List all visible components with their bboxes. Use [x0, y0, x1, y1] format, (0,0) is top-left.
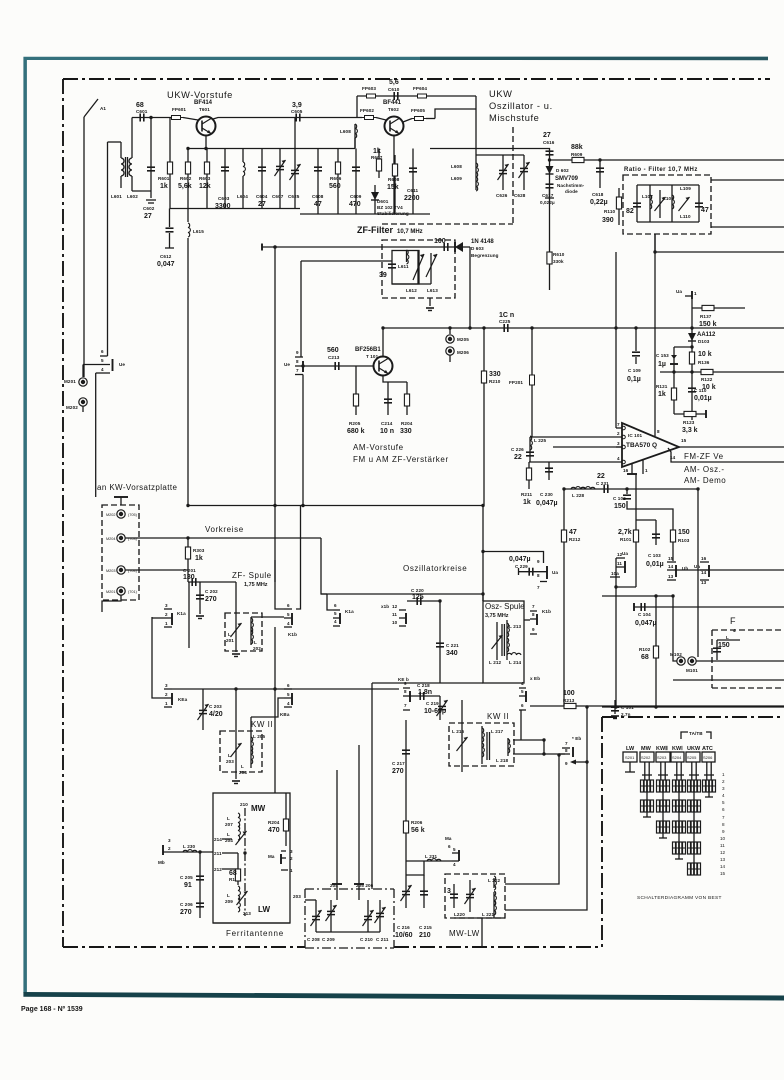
resistor R303 1k	[185, 538, 204, 582]
svg-text:UKW: UKW	[687, 746, 701, 752]
svg-text:S201: S201	[625, 755, 635, 760]
svg-text:M202: M202	[106, 513, 116, 517]
svg-text:R121: R121	[656, 384, 668, 389]
svg-text:91: 91	[184, 882, 192, 889]
svg-text:47: 47	[701, 207, 709, 214]
svg-text:47: 47	[314, 201, 322, 208]
wire Osz box to K1b	[524, 619, 530, 621]
svg-text:L 205: L 205	[253, 734, 266, 739]
svg-text:Ferritantenne: Ferritantenne	[226, 929, 284, 938]
svg-text:C 218: C 218	[417, 683, 430, 688]
wire M101 right	[696, 660, 784, 662]
svg-text:C611: C611	[407, 188, 418, 193]
svg-text:M203: M203	[106, 569, 116, 573]
svg-text:68: 68	[136, 102, 144, 109]
trimmer C626	[496, 155, 509, 198]
svg-text:11: 11	[720, 843, 725, 848]
svg-text:202: 202	[253, 646, 261, 651]
resistor R137 150k	[692, 305, 745, 328]
svg-text:R204: R204	[268, 820, 280, 825]
connector K1a osc pins 6 5 4	[333, 603, 354, 626]
test point FP605	[403, 108, 435, 122]
trimmer L613	[426, 253, 438, 293]
svg-text:R608: R608	[388, 177, 400, 182]
wire left short y596	[602, 595, 673, 597]
svg-text:L608: L608	[340, 129, 351, 134]
svg-text:C609: C609	[350, 194, 362, 199]
svg-text:47: 47	[569, 529, 577, 536]
svg-text:C618: C618	[592, 192, 604, 197]
svg-text:D601: D601	[377, 199, 389, 204]
svg-text:L109: L109	[680, 186, 691, 191]
wire ratio box bottom internal	[637, 221, 699, 223]
svg-text:3: 3	[168, 838, 171, 843]
svg-text:7: 7	[722, 815, 725, 820]
svg-text:Page 168 - Nº 1539: Page 168 - Nº 1539	[21, 1006, 83, 1013]
svg-text:210: 210	[419, 932, 431, 939]
svg-text:0,047µ: 0,047µ	[536, 500, 558, 507]
svg-text:L 217: L 217	[491, 729, 504, 734]
svg-text:Nachstimm-: Nachstimm-	[557, 183, 585, 188]
node M204 KW	[106, 534, 138, 542]
svg-text:6: 6	[334, 603, 337, 608]
svg-text:C 220: C 220	[411, 588, 424, 593]
ZF-Spule dashed box	[225, 613, 262, 651]
wire rail x275 to ferrite	[274, 689, 276, 793]
chain-dot module border left	[62, 79, 64, 947]
resistor R610 330k	[547, 198, 565, 290]
svg-text:C 153: C 153	[656, 353, 669, 358]
svg-text:C 229: C 229	[515, 564, 528, 569]
resistor R606 560	[329, 149, 342, 215]
svg-text:8: 8	[532, 612, 535, 617]
svg-text:56 k: 56 k	[411, 827, 425, 834]
svg-text:6: 6	[101, 349, 104, 354]
svg-text:209: 209	[225, 899, 233, 904]
switch stack LW stub	[625, 762, 635, 772]
wire M201 stub	[102, 595, 121, 612]
svg-text:R601: R601	[158, 176, 170, 181]
svg-text:214: 214	[214, 837, 222, 842]
svg-text:L: L	[726, 635, 729, 640]
wire M box	[673, 596, 677, 661]
svg-text:C610: C610	[388, 87, 400, 92]
svg-text:6: 6	[521, 703, 524, 708]
svg-text:7: 7	[296, 368, 299, 373]
svg-text:330: 330	[400, 428, 412, 435]
wire pin16 rail down	[616, 474, 636, 587]
svg-text:L220: L220	[454, 912, 465, 917]
wire osc feed to Ue pin9	[483, 552, 544, 564]
capacitor C214 10n	[380, 382, 394, 435]
wire left rail to Ue pin6	[107, 142, 109, 356]
connector Ma pins 3 2 1	[268, 849, 293, 873]
wire gate line	[303, 365, 374, 367]
svg-text:R102: R102	[639, 647, 651, 652]
resistor R103 150	[670, 529, 689, 543]
wire main bias bus	[188, 148, 356, 150]
wire ground bus left	[170, 208, 300, 210]
capacitor C608 47	[312, 149, 324, 215]
switch S202	[640, 752, 654, 762]
inductor L230	[163, 844, 213, 852]
wire pin4 down to KW box	[95, 373, 97, 492]
svg-text:FP603: FP603	[362, 86, 376, 91]
svg-text:270: 270	[180, 909, 192, 916]
svg-text:Begrenzung: Begrenzung	[471, 253, 499, 258]
svg-text:1: 1	[165, 701, 168, 706]
wire diode output down	[469, 247, 471, 328]
ground C302	[196, 616, 204, 619]
inductor L107	[642, 185, 653, 222]
svg-text:L615: L615	[193, 229, 204, 234]
resistor R205 680k	[347, 366, 365, 435]
trimmer L108	[655, 190, 675, 218]
KWII right dashed box	[449, 723, 514, 766]
svg-text:Osz- Spule: Osz- Spule	[485, 602, 525, 611]
wire ladder rail	[691, 299, 693, 420]
svg-text:C 211: C 211	[376, 937, 389, 942]
test point FP602	[360, 108, 376, 120]
svg-text:L 218: L 218	[496, 758, 509, 763]
dashed UKW module boundary bottom	[382, 223, 513, 225]
svg-text:an KW-Vorsatzplatte: an KW-Vorsatzplatte	[97, 483, 178, 492]
svg-text:470: 470	[268, 827, 280, 834]
svg-text:M201: M201	[106, 590, 116, 594]
trimmer C219 10-60p	[424, 696, 448, 720]
svg-text:1k: 1k	[160, 183, 168, 190]
svg-text:6: 6	[448, 844, 451, 849]
node M205	[446, 328, 469, 343]
svg-text:M202: M202	[66, 405, 78, 410]
capacitor C618 0,22u	[590, 160, 608, 206]
pin 3 wire	[616, 441, 622, 447]
wire KBa top link	[250, 717, 252, 735]
trimmer on MW coil	[225, 831, 247, 845]
svg-text:100: 100	[434, 238, 446, 245]
switch row numbers	[720, 772, 726, 876]
svg-text:L 214: L 214	[509, 660, 522, 665]
svg-text:12: 12	[720, 850, 726, 855]
pin 14 wire	[668, 448, 784, 462]
capacitor C101 2,7n	[611, 700, 634, 719]
wire BF256 source down	[383, 376, 407, 383]
trimmer coil L213	[489, 622, 503, 665]
svg-text:1: 1	[694, 291, 697, 296]
inductor L218	[496, 738, 510, 763]
inductor L225	[530, 436, 547, 450]
svg-text:9: 9	[296, 350, 299, 355]
svg-text:C 202: C 202	[205, 589, 218, 594]
wire bias bus BF441	[300, 213, 430, 215]
svg-text:27: 27	[144, 213, 152, 220]
svg-text:4: 4	[722, 793, 725, 798]
resistor R603 12k	[199, 149, 211, 209]
svg-text:2,7n: 2,7n	[621, 712, 631, 717]
svg-text:203: 203	[293, 894, 301, 899]
svg-text:K1a: K1a	[345, 609, 354, 614]
wire R212 riser lower	[563, 568, 565, 706]
svg-text:130: 130	[183, 574, 195, 581]
svg-text:K1a: K1a	[177, 611, 186, 616]
svg-text:5,6k: 5,6k	[178, 183, 192, 190]
wire gang feed x337	[336, 770, 338, 882]
svg-text:A1: A1	[100, 106, 106, 111]
node M206	[446, 347, 469, 362]
connector Ma pins 6 5 4	[445, 836, 459, 867]
svg-text:7: 7	[565, 741, 568, 746]
trimmer coil L220	[454, 880, 476, 917]
switch S205	[686, 752, 700, 762]
svg-text:14: 14	[668, 564, 674, 569]
svg-text:68: 68	[229, 870, 237, 877]
svg-text:ATC: ATC	[702, 746, 713, 752]
svg-text:C 216: C 216	[397, 925, 410, 930]
trimmer coil L216	[452, 700, 468, 772]
svg-text:270: 270	[392, 768, 404, 775]
gang chain box	[305, 889, 394, 948]
svg-text:R137: R137	[700, 314, 712, 319]
chain-dot module border top	[63, 78, 770, 80]
svg-text:C603: C603	[218, 196, 230, 201]
capacitor C104 0,047u	[634, 603, 784, 627]
svg-text:S204: S204	[672, 755, 682, 760]
svg-text:C 231: C 231	[596, 481, 609, 486]
KW connector dashed box	[102, 505, 139, 600]
diode D601 BZ102	[371, 185, 409, 216]
svg-text:2: 2	[290, 856, 293, 861]
pin 3 wire	[553, 446, 622, 448]
svg-text:213: 213	[243, 911, 251, 916]
svg-text:C 215: C 215	[419, 925, 432, 930]
svg-text:R123: R123	[683, 420, 695, 425]
svg-text:L: L	[227, 816, 230, 821]
ground KWII left	[232, 781, 240, 784]
svg-text:L 222: L 222	[488, 878, 501, 883]
svg-text:10-60p: 10-60p	[424, 708, 446, 715]
svg-text:8: 8	[565, 748, 568, 753]
trimmer coil L203	[226, 689, 242, 779]
svg-text:Mischstufe: Mischstufe	[489, 113, 539, 123]
wire KEb osc riser	[520, 710, 522, 740]
resistor R211 1k	[521, 462, 532, 506]
svg-text:C214: C214	[381, 421, 393, 426]
svg-text:M204: M204	[106, 537, 116, 541]
svg-text:C 209: C 209	[322, 937, 335, 942]
resistor R608 15k	[387, 155, 400, 214]
gang internal bottom rail	[316, 931, 380, 933]
svg-text:11: 11	[392, 612, 397, 617]
wire x656 down	[655, 596, 657, 707]
svg-text:15: 15	[720, 871, 726, 876]
svg-text:C225: C225	[499, 319, 511, 324]
svg-text:T601: T601	[199, 107, 210, 112]
svg-text:x Eb: x Eb	[530, 676, 540, 681]
svg-text:0,047µ: 0,047µ	[509, 556, 531, 563]
svg-text:12: 12	[617, 552, 623, 557]
wire pin7 riser	[615, 252, 617, 428]
svg-text:KWⅡ: KWⅡ	[656, 745, 668, 752]
svg-text:LW: LW	[626, 746, 635, 752]
svg-text:L: L	[227, 832, 230, 837]
gang trimmer C211	[375, 900, 389, 942]
svg-text:L612: L612	[406, 288, 417, 293]
svg-text:C 201: C 201	[183, 568, 196, 573]
svg-text:9: 9	[537, 559, 540, 564]
capacitor C215 210	[419, 875, 432, 939]
svg-text:2: 2	[168, 846, 171, 851]
svg-text:BF256B1: BF256B1	[355, 347, 381, 353]
wire K1b top to rail	[275, 582, 284, 609]
svg-text:203: 203	[226, 759, 234, 764]
resistor R122 10k	[701, 369, 716, 391]
svg-text:R1: R1	[229, 877, 235, 882]
connector KEa pins 3 2 1	[164, 683, 188, 707]
wire K1a osc riser	[327, 594, 333, 610]
svg-text:9: 9	[532, 627, 535, 632]
wire L231 left branch	[406, 860, 425, 862]
capacitor C610 5,6	[388, 79, 400, 100]
transistor BF414 T601	[194, 100, 216, 136]
wire main bus y505	[188, 505, 483, 507]
wire ZF input riser x301	[300, 261, 302, 357]
wire into ZF box	[301, 260, 392, 262]
wire osc bus y594	[321, 594, 483, 601]
connector xEb right pins 7 8 9	[559, 736, 581, 766]
svg-text:8: 8	[296, 359, 299, 364]
svg-text:3,9: 3,9	[292, 102, 302, 109]
capacitor C604 27	[256, 149, 268, 209]
trimmer C607	[272, 149, 286, 209]
wire input top	[132, 117, 176, 119]
connector Ue pins 9 8 7	[284, 350, 303, 375]
svg-text:R603: R603	[199, 176, 211, 181]
svg-text:C 109: C 109	[628, 368, 641, 373]
wire R212 riser	[563, 489, 565, 568]
svg-text:10/60: 10/60	[395, 932, 413, 939]
wire C216 C215 top bus	[406, 861, 424, 875]
gang trimmer C208	[307, 900, 322, 942]
trimmer coil L201	[226, 582, 242, 648]
svg-text:82: 82	[626, 208, 634, 215]
svg-text:4: 4	[617, 456, 620, 461]
wire C103 link	[636, 519, 656, 521]
wire ZF-Spule frame	[188, 582, 190, 648]
svg-text:C 205: C 205	[180, 875, 193, 880]
svg-text:0,22µ: 0,22µ	[590, 199, 608, 206]
resistor R204 330	[400, 382, 413, 435]
svg-text:SMV709: SMV709	[555, 176, 579, 182]
wire gang feed x359	[358, 745, 360, 882]
svg-text:1µ: 1µ	[658, 361, 666, 368]
svg-text:14: 14	[670, 455, 676, 460]
wire C225 bus	[383, 327, 784, 329]
wire BF441 collector riser	[435, 109, 476, 119]
svg-text:7: 7	[404, 703, 407, 708]
svg-text:R103: R103	[678, 538, 690, 543]
svg-text:C617: C617	[542, 193, 554, 198]
svg-text:L 212: L 212	[489, 660, 502, 665]
inductor L611	[398, 250, 409, 269]
wire rail x275 vertical	[274, 560, 276, 582]
svg-text:T 101: T 101	[366, 354, 379, 359]
svg-text:211: 211	[214, 851, 222, 856]
antenna stub on box	[96, 492, 128, 505]
svg-text:4: 4	[733, 628, 736, 633]
svg-text:12k: 12k	[199, 183, 211, 190]
svg-text:150 k: 150 k	[699, 321, 717, 328]
svg-text:C 206: C 206	[180, 902, 193, 907]
svg-text:13: 13	[701, 580, 707, 585]
svg-text:L 225: L 225	[534, 438, 547, 443]
svg-text:1,75 MHz: 1,75 MHz	[244, 582, 268, 588]
svg-text:10: 10	[720, 836, 726, 841]
svg-text:KEa: KEa	[178, 697, 188, 702]
svg-text:Ma: Ma	[445, 836, 452, 841]
wire L204 to KBa	[251, 698, 284, 717]
svg-text:210: 210	[240, 802, 248, 807]
svg-text:FM u AM ZF-Verstärker: FM u AM ZF-Verstärker	[353, 455, 449, 464]
svg-text:0,01µ: 0,01µ	[694, 395, 712, 402]
connector Ua pin1 top	[676, 289, 697, 299]
svg-text:R609: R609	[571, 152, 583, 157]
svg-text:330: 330	[489, 371, 501, 378]
capacitor MW-LW input	[450, 884, 458, 908]
svg-text:M101: M101	[686, 668, 698, 673]
capacitor C229 0,047u	[509, 556, 547, 576]
svg-text:5: 5	[521, 689, 524, 694]
wire M box bottom	[673, 679, 784, 681]
svg-text:680 k: 680 k	[347, 428, 365, 435]
svg-text:5: 5	[722, 800, 725, 805]
wire BF414 emitter down	[205, 136, 207, 149]
capacitor C601 68	[136, 102, 148, 122]
connector Ue osc pins 9 8 7	[537, 559, 558, 590]
svg-text:88k: 88k	[571, 144, 583, 151]
svg-text:R101: R101	[620, 537, 632, 542]
svg-text:L107: L107	[642, 194, 653, 199]
connector Mb pins 3 2	[158, 838, 171, 865]
svg-text:4: 4	[453, 862, 456, 867]
svg-text:4: 4	[287, 701, 290, 706]
svg-text:9: 9	[565, 761, 568, 766]
svg-text:UKW-Vorstufe: UKW-Vorstufe	[167, 90, 233, 100]
capacitor C611 2200	[404, 149, 420, 215]
wire K1b bar riser to bus	[296, 506, 301, 610]
node M202	[66, 398, 87, 412]
svg-text:8: 8	[404, 689, 407, 694]
svg-text:K1b: K1b	[542, 609, 551, 614]
capacitor C206 270	[180, 902, 204, 916]
svg-text:15: 15	[668, 556, 674, 561]
test point FP604	[413, 86, 429, 98]
svg-text:Oszillatorkreise: Oszillatorkreise	[403, 564, 467, 573]
svg-text:C605: C605	[291, 109, 303, 114]
capacitor C603 3300	[215, 149, 231, 211]
svg-text:L609: L609	[451, 176, 462, 181]
resistor R609 88k	[571, 144, 584, 163]
svg-text:4/20: 4/20	[209, 711, 223, 718]
wire y372 rail	[660, 371, 784, 373]
node M102	[670, 652, 685, 665]
svg-text:C 230: C 230	[540, 492, 553, 497]
svg-text:5: 5	[101, 358, 104, 363]
svg-text:8: 8	[722, 822, 725, 827]
svg-text:3,3 k: 3,3 k	[682, 427, 698, 434]
svg-text:560: 560	[329, 183, 341, 190]
svg-text:2,7k: 2,7k	[618, 529, 632, 536]
svg-text:(705): (705)	[128, 513, 138, 517]
